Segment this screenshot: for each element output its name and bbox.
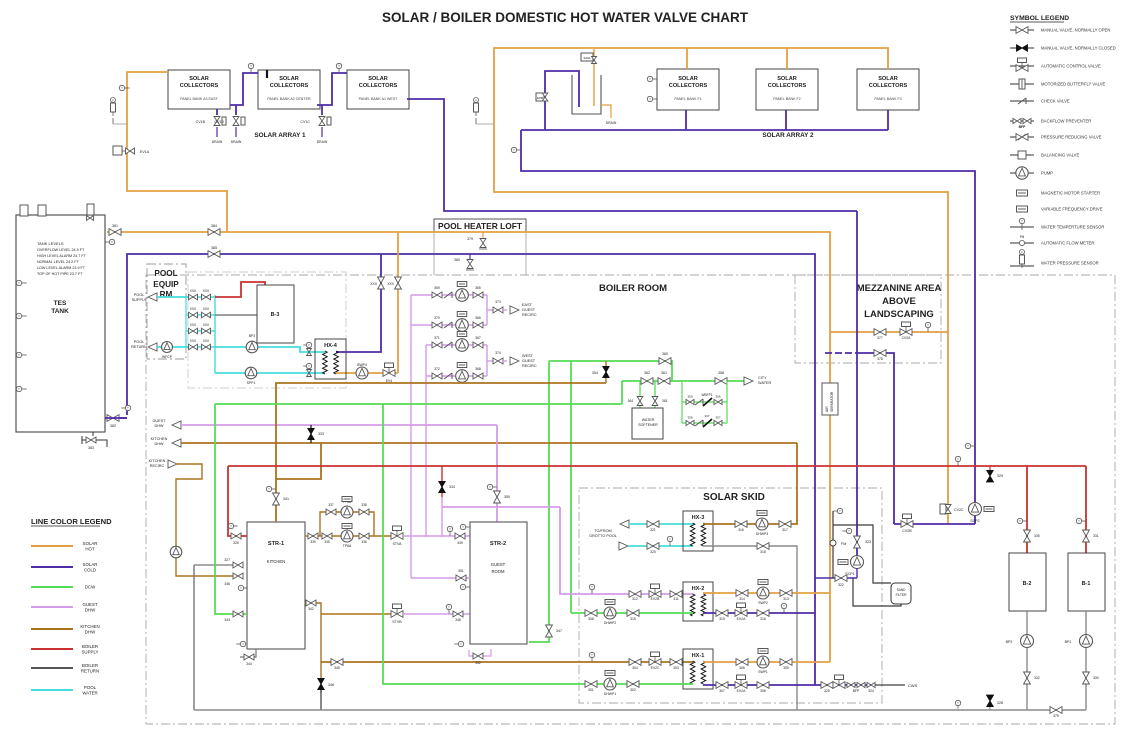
svg-text:T: T (591, 653, 593, 657)
solar cold riser to mezzanine (521, 130, 975, 502)
TP6 pump rows (305, 535, 392, 537)
svg-text:XXX: XXX (203, 307, 210, 311)
XXX valve rows (185, 297, 187, 347)
svg-text:TO/FROM: TO/FROM (594, 529, 611, 533)
svg-text:OVERFLOW LEVEL 24.9 FT: OVERFLOW LEVEL 24.9 FT (37, 248, 85, 252)
pool heater loft label (434, 219, 526, 232)
svg-text:PRESSURE REDUCING VALVE: PRESSURE REDUCING VALVE (1041, 135, 1102, 140)
svg-text:T: T (1021, 219, 1023, 223)
relief valve 329 (989, 466, 991, 471)
svg-text:384: 384 (211, 224, 217, 228)
svg-text:WFCP: WFCP (162, 355, 173, 359)
svg-text:312: 312 (632, 597, 638, 601)
svg-text:358: 358 (687, 416, 692, 420)
svg-text:322: 322 (838, 583, 844, 587)
guest dhw branch to solar skid (442, 506, 560, 508)
svg-text:XXX: XXX (190, 307, 197, 311)
svg-text:TOP OF HOT PIPE 23.7 FT: TOP OF HOT PIPE 23.7 FT (37, 272, 83, 276)
svg-text:338: 338 (361, 503, 367, 507)
svg-text:AUTOMATIC CONTROL VALVE: AUTOMATIC CONTROL VALVE (1041, 64, 1101, 69)
svg-text:305: 305 (783, 666, 789, 670)
wire solar hot feed to A3 (127, 72, 227, 232)
svg-text:CV1D: CV1D (214, 120, 224, 124)
dcw pump row DHWP2 (571, 612, 693, 614)
svg-text:MANUAL VALVE, NORMALLY CLOSED: MANUAL VALVE, NORMALLY CLOSED (1041, 46, 1116, 51)
recirc valves 327 346 (194, 564, 234, 566)
svg-text:347: 347 (704, 414, 709, 418)
solar hot top main (494, 48, 948, 524)
svg-text:BFP: BFP (853, 689, 860, 693)
svg-text:WATER TEMPERTURE SENSOR: WATER TEMPERTURE SENSOR (1041, 225, 1104, 230)
svg-text:STVB: STVB (392, 620, 402, 624)
svg-text:KITCHEN: KITCHEN (149, 459, 166, 463)
svg-text:STR-1: STR-1 (268, 541, 284, 547)
svg-text:SOLAR: SOLAR (878, 76, 898, 82)
pool equipment inner dashed box (188, 272, 346, 388)
pump SCP2 (974, 516, 976, 524)
svg-text:SOLAR: SOLAR (83, 562, 98, 567)
STR-2 bottom recirc valve 352 (469, 649, 491, 656)
pool heater loft dashed verticals (433, 231, 435, 275)
svg-text:SOLAR: SOLAR (368, 76, 388, 82)
svg-text:SWP2: SWP2 (758, 601, 768, 605)
TES tank (16, 215, 105, 432)
valve 382 into tank (125, 405, 130, 410)
pressure sensor left of array 1 (111, 98, 116, 103)
svg-text:362: 362 (644, 371, 650, 375)
svg-text:POOL: POOL (154, 269, 177, 278)
svg-text:HOT: HOT (85, 547, 95, 552)
port tick on A2 (266, 70, 268, 78)
svg-text:T: T (927, 323, 929, 327)
svg-text:GUEST: GUEST (152, 419, 166, 423)
svg-text:SOLAR: SOLAR (83, 541, 98, 546)
city water main (622, 380, 746, 382)
crossover valve 333 (310, 425, 312, 443)
svg-text:EV1A: EV1A (140, 150, 150, 154)
svg-text:B-1: B-1 (1082, 581, 1091, 587)
svg-text:MOTORIZED BUTTERFLY VALVE: MOTORIZED BUTTERFLY VALVE (1041, 82, 1106, 87)
svg-text:324: 324 (868, 689, 874, 693)
mezz solar hot line valve 377 CV2A (830, 331, 948, 333)
drain CV1C (321, 105, 323, 115)
solar cold riser to HX-4 (336, 254, 381, 352)
SCP1 branch (846, 528, 851, 533)
svg-text:345: 345 (334, 666, 340, 670)
svg-text:SAND: SAND (897, 588, 907, 592)
solar hot riser from HX-4 (397, 232, 399, 373)
svg-text:CV1B: CV1B (196, 120, 206, 124)
svg-text:B-3: B-3 (271, 312, 280, 318)
svg-text:363: 363 (662, 399, 668, 403)
boiler return legs (1026, 611, 1028, 710)
svg-text:EV2B: EV2B (651, 597, 660, 601)
svg-text:T: T (111, 240, 113, 244)
svg-text:DRAIN: DRAIN (231, 140, 242, 144)
svg-text:T: T (839, 509, 841, 513)
svg-text:GUEST: GUEST (82, 602, 97, 607)
svg-text:SYMBOL LEGEND: SYMBOL LEGEND (1010, 15, 1069, 22)
svg-text:T: T (1019, 519, 1021, 523)
TP6B parallel loop (320, 512, 374, 536)
svg-text:369: 369 (434, 286, 440, 290)
svg-text:T: T (121, 86, 123, 90)
svg-text:320: 320 (650, 550, 656, 554)
svg-text:XXX: XXX (387, 282, 395, 286)
svg-text:385: 385 (211, 246, 217, 250)
svg-text:SUPPLY: SUPPLY (132, 298, 147, 302)
svg-text:335: 335 (324, 540, 330, 544)
pool equip rm dashed box (147, 264, 186, 359)
STR-1 drain 344 (240, 649, 256, 657)
svg-text:CITY: CITY (758, 376, 767, 380)
svg-text:375: 375 (1053, 714, 1059, 718)
solar array 1 (168, 70, 230, 109)
svg-text:PANEL BANK A3 EAST: PANEL BANK A3 EAST (180, 97, 219, 101)
svg-text:BACKFLOW PREVENTER: BACKFLOW PREVENTER (1041, 119, 1091, 124)
svg-text:346: 346 (224, 582, 230, 586)
svg-text:BOILER ROOM: BOILER ROOM (599, 283, 667, 294)
svg-text:313: 313 (783, 597, 789, 601)
boiler B-3 (257, 285, 294, 343)
svg-text:373: 373 (495, 300, 501, 304)
tank STR-2 (470, 522, 527, 644)
svg-text:325: 325 (824, 689, 830, 693)
svg-text:333: 333 (318, 432, 324, 436)
svg-text:XXX: XXX (203, 289, 210, 293)
svg-text:314: 314 (739, 597, 745, 601)
svg-text:NORMAL LEVEL 24.2 FT: NORMAL LEVEL 24.2 FT (37, 260, 79, 264)
svg-text:349: 349 (457, 541, 463, 545)
svg-text:T: T (783, 604, 785, 608)
svg-text:DCW: DCW (85, 585, 96, 590)
svg-text:T: T (967, 444, 969, 448)
svg-text:335: 335 (1034, 534, 1040, 538)
recirc risers down (410, 295, 412, 578)
pool water to HX-4 top (215, 347, 325, 352)
svg-text:T: T (18, 387, 20, 391)
svg-text:RETURN: RETURN (81, 669, 99, 674)
svg-text:T: T (1078, 519, 1080, 523)
svg-text:327: 327 (224, 558, 230, 562)
heat exchanger HX-3 (683, 511, 713, 551)
svg-text:PANEL BANK F3: PANEL BANK F3 (874, 97, 901, 101)
riser joining dcw main to city water (621, 381, 623, 404)
svg-text:SOLAR SKID: SOLAR SKID (703, 492, 765, 503)
svg-text:COLD: COLD (84, 568, 96, 573)
svg-text:318: 318 (760, 550, 766, 554)
svg-text:372: 372 (434, 367, 440, 371)
svg-text:367: 367 (475, 336, 481, 340)
drain CV1D (235, 105, 237, 115)
pump WFCP (160, 346, 189, 348)
bypass with valve 360 (549, 361, 672, 381)
valve 351 into STR-2 (411, 577, 470, 579)
svg-text:315: 315 (719, 617, 725, 621)
svg-text:SCP2: SCP2 (970, 519, 979, 523)
svg-text:343: 343 (224, 618, 230, 622)
svg-text:GUEST: GUEST (522, 359, 536, 363)
svg-text:T: T (462, 525, 464, 529)
svg-text:T: T (127, 406, 129, 410)
boiler return main (194, 709, 1086, 711)
svg-text:358: 358 (718, 371, 724, 375)
svg-text:FM: FM (1020, 235, 1025, 239)
svg-text:379: 379 (467, 237, 473, 241)
heat exchanger HX-2 (683, 582, 713, 621)
svg-text:SWP1: SWP1 (758, 670, 768, 674)
svg-text:GUEST: GUEST (522, 308, 536, 312)
svg-text:WATER: WATER (758, 381, 772, 385)
dcw pump row DHWP1 (383, 404, 693, 684)
svg-text:RECIRC: RECIRC (150, 464, 165, 468)
svg-text:POOL: POOL (134, 340, 145, 344)
svg-text:328: 328 (997, 701, 1003, 705)
svg-text:B-2: B-2 (1023, 581, 1032, 587)
svg-text:352: 352 (475, 661, 481, 665)
svg-text:HX-4: HX-4 (324, 343, 338, 349)
svg-text:CHECK VALVE: CHECK VALVE (1041, 99, 1070, 104)
svg-text:347: 347 (556, 629, 562, 633)
svg-text:STVA: STVA (392, 542, 402, 546)
HX-1 solar cold row / CWS (703, 684, 815, 686)
svg-text:T: T (513, 148, 515, 152)
loft drain valve 379 (482, 232, 484, 240)
valve 383 tank bottom drain (92, 432, 94, 436)
sand filter loop (853, 578, 901, 606)
tank STR-1 (247, 522, 305, 649)
svg-text:EQUIP: EQUIP (153, 280, 179, 289)
kitchen supply jog to STR-1 (276, 443, 321, 479)
solar cold bottom main (521, 129, 888, 131)
svg-text:XXX: XXX (203, 339, 210, 343)
svg-text:344: 344 (246, 662, 252, 666)
svg-text:334: 334 (449, 485, 455, 489)
svg-text:380: 380 (454, 258, 460, 262)
svg-text:DRAIN: DRAIN (606, 121, 617, 125)
heat exchanger HX-4 (315, 339, 346, 379)
svg-text:T: T (489, 485, 491, 489)
svg-text:351: 351 (458, 569, 464, 573)
svg-text:DHW: DHW (85, 608, 96, 613)
svg-text:SOLAR: SOLAR (279, 76, 299, 82)
svg-text:PUMP: PUMP (1041, 171, 1053, 176)
drain CV1B (216, 109, 218, 115)
valve 346 black (318, 679, 324, 685)
svg-text:BOILER: BOILER (82, 663, 98, 668)
svg-text:FM: FM (841, 542, 846, 546)
svg-text:LANDSCAPING: LANDSCAPING (864, 309, 934, 320)
svg-text:366: 366 (475, 316, 481, 320)
heat exchanger HX-1 (683, 649, 713, 689)
svg-text:TP6A: TP6A (343, 544, 352, 548)
svg-text:RECIRC: RECIRC (522, 313, 537, 317)
svg-text:TANK LEVELS: TANK LEVELS (37, 241, 64, 246)
svg-text:378: 378 (877, 357, 883, 361)
svg-text:GUEST: GUEST (491, 562, 506, 567)
svg-text:BP3: BP3 (249, 334, 256, 338)
backflow preventer rows (681, 381, 683, 423)
svg-text:T: T (669, 537, 671, 541)
svg-text:RECIRC: RECIRC (522, 364, 537, 368)
svg-text:XXX: XXX (203, 323, 210, 327)
svg-text:303: 303 (673, 666, 679, 670)
svg-text:TES: TES (54, 300, 67, 307)
solar cold main from TES (127, 254, 815, 685)
svg-text:COLLECTORS: COLLECTORS (359, 83, 398, 89)
svg-text:ABOVE: ABOVE (882, 296, 916, 307)
svg-text:CWS: CWS (908, 683, 918, 688)
svg-text:319: 319 (630, 617, 636, 621)
svg-text:KITCHEN: KITCHEN (80, 624, 99, 629)
svg-text:T: T (957, 701, 959, 705)
svg-text:MANUAL VALVE, NORMALLY OPEN: MANUAL VALVE, NORMALLY OPEN (1041, 28, 1110, 33)
air separator (822, 383, 838, 415)
boiler supply into STR-1 valve 326 (228, 466, 247, 536)
STVB control valve (391, 611, 397, 618)
svg-text:T: T (462, 585, 464, 589)
svg-text:SUPPLY: SUPPLY (81, 650, 98, 655)
pool water to HX-4 bottom (215, 372, 325, 374)
svg-text:377: 377 (877, 336, 883, 340)
svg-text:DHW: DHW (154, 442, 163, 446)
svg-text:WATER: WATER (642, 418, 655, 422)
svg-text:339: 339 (310, 540, 316, 544)
svg-text:341: 341 (283, 497, 289, 501)
A1 outlet to pool heater loft (407, 99, 857, 211)
svg-text:PANEL BANK F2: PANEL BANK F2 (773, 97, 800, 101)
solar array 2 (657, 69, 719, 110)
svg-text:383: 383 (88, 446, 94, 450)
svg-text:BALANCING VALVE: BALANCING VALVE (1041, 153, 1079, 158)
svg-text:FILTER: FILTER (896, 593, 907, 597)
svg-text:XXX: XXX (190, 339, 197, 343)
svg-text:T: T (649, 97, 651, 101)
svg-text:POOL: POOL (134, 293, 145, 297)
HX-1 solar hot row (703, 661, 830, 663)
east guest recirc (487, 309, 493, 311)
CV2C motorized on solar hot (940, 504, 946, 514)
svg-text:WATER: WATER (82, 691, 97, 696)
svg-text:T: T (18, 314, 20, 318)
svg-text:T: T (242, 642, 244, 646)
svg-text:COLLECTORS: COLLECTORS (669, 83, 708, 89)
svg-text:365: 365 (475, 286, 481, 290)
svg-text:321: 321 (650, 528, 656, 532)
sand filter (891, 583, 911, 604)
svg-text:CV2C: CV2C (954, 508, 964, 512)
svg-text:E40B: E40B (537, 96, 544, 100)
svg-text:374: 374 (495, 351, 501, 355)
B-3 return (gray) (215, 314, 257, 316)
svg-text:DRAIN: DRAIN (317, 140, 328, 144)
svg-text:DHW: DHW (85, 630, 96, 635)
svg-text:DRAIN: DRAIN (212, 140, 223, 144)
svg-text:T: T (230, 524, 232, 528)
valve EV1A (113, 146, 122, 155)
temp sensor on solar feed (119, 85, 124, 90)
STVA control valve (391, 533, 397, 540)
B-3 supply (red) (215, 282, 265, 297)
svg-text:SOLAR ARRAY 1: SOLAR ARRAY 1 (254, 132, 306, 139)
svg-text:RETURN: RETURN (131, 345, 147, 349)
svg-text:T: T (308, 364, 310, 368)
svg-text:357: 357 (715, 416, 720, 420)
svg-text:370: 370 (434, 316, 440, 320)
svg-text:330: 330 (1093, 676, 1099, 680)
svg-text:LINE COLOR LEGEND: LINE COLOR LEGEND (31, 517, 112, 526)
sensors on array 2 feed (647, 76, 652, 81)
valve 341 riser and make-up line (276, 383, 606, 522)
svg-text:WATER PRESSURE SENSOR: WATER PRESSURE SENSOR (1041, 261, 1099, 266)
svg-text:348: 348 (455, 618, 461, 622)
guest dhw riser to STR-2 (496, 425, 498, 522)
svg-text:HIGH LEVEL ALARM 24.7 FT: HIGH LEVEL ALARM 24.7 FT (37, 254, 87, 258)
svg-text:381: 381 (112, 224, 118, 228)
svg-text:HX-1: HX-1 (692, 653, 705, 659)
svg-text:BWP4: BWP4 (357, 363, 367, 367)
svg-text:316: 316 (760, 617, 766, 621)
svg-text:TANK: TANK (51, 308, 69, 315)
expansion tank assembly (545, 71, 579, 130)
svg-text:DHWP3: DHWP3 (756, 532, 768, 536)
relief valve 328 (989, 706, 991, 710)
svg-text:T: T (448, 605, 450, 609)
svg-text:E40A: E40A (584, 56, 591, 60)
svg-text:354: 354 (592, 371, 598, 375)
svg-text:STR-2: STR-2 (490, 541, 506, 547)
HX-2 solar hot row (703, 592, 830, 594)
solar skid dashed box (579, 488, 882, 703)
svg-text:T: T (250, 64, 252, 68)
svg-text:COLLECTORS: COLLECTORS (180, 83, 219, 89)
svg-text:T: T (957, 457, 959, 461)
svg-text:BP2: BP2 (1006, 640, 1013, 644)
svg-text:EV2A: EV2A (737, 617, 746, 621)
svg-text:317: 317 (782, 528, 788, 532)
svg-text:311: 311 (673, 597, 679, 601)
svg-text:CV1C: CV1C (300, 120, 310, 124)
svg-text:ROOM: ROOM (491, 569, 505, 574)
boiler supply drop valve 334 (441, 466, 443, 497)
kitchen dhw to skid valve 345 (321, 661, 693, 663)
svg-text:DHW: DHW (154, 424, 163, 428)
svg-text:P: P (1021, 250, 1023, 254)
svg-text:316: 316 (738, 528, 744, 532)
svg-text:PANEL BANK F1: PANEL BANK F1 (674, 97, 701, 101)
green risers (529, 361, 549, 642)
svg-text:P: P (475, 98, 477, 102)
svg-text:308: 308 (588, 617, 594, 621)
svg-text:301: 301 (588, 688, 594, 692)
svg-text:SEPARATOR: SEPARATOR (830, 391, 834, 412)
svg-text:AIR: AIR (825, 406, 829, 412)
svg-text:329: 329 (997, 474, 1003, 478)
svg-text:359: 359 (687, 395, 692, 399)
svg-text:T: T (18, 281, 20, 285)
jumper A3-A2 (230, 73, 258, 105)
svg-text:PANEL BANK A1 WEST: PANEL BANK A1 WEST (359, 97, 399, 101)
svg-text:331: 331 (1093, 534, 1099, 538)
valve 354 black to city water bypass (605, 361, 607, 383)
svg-text:BFP: BFP (1019, 125, 1027, 129)
boiler room dashed boundary (146, 275, 1115, 724)
svg-text:T: T (240, 586, 242, 590)
svg-text:SOFTENER: SOFTENER (638, 423, 658, 427)
svg-text:XXX: XXX (370, 282, 378, 286)
svg-text:T: T (268, 487, 270, 491)
svg-text:332: 332 (1034, 676, 1040, 680)
